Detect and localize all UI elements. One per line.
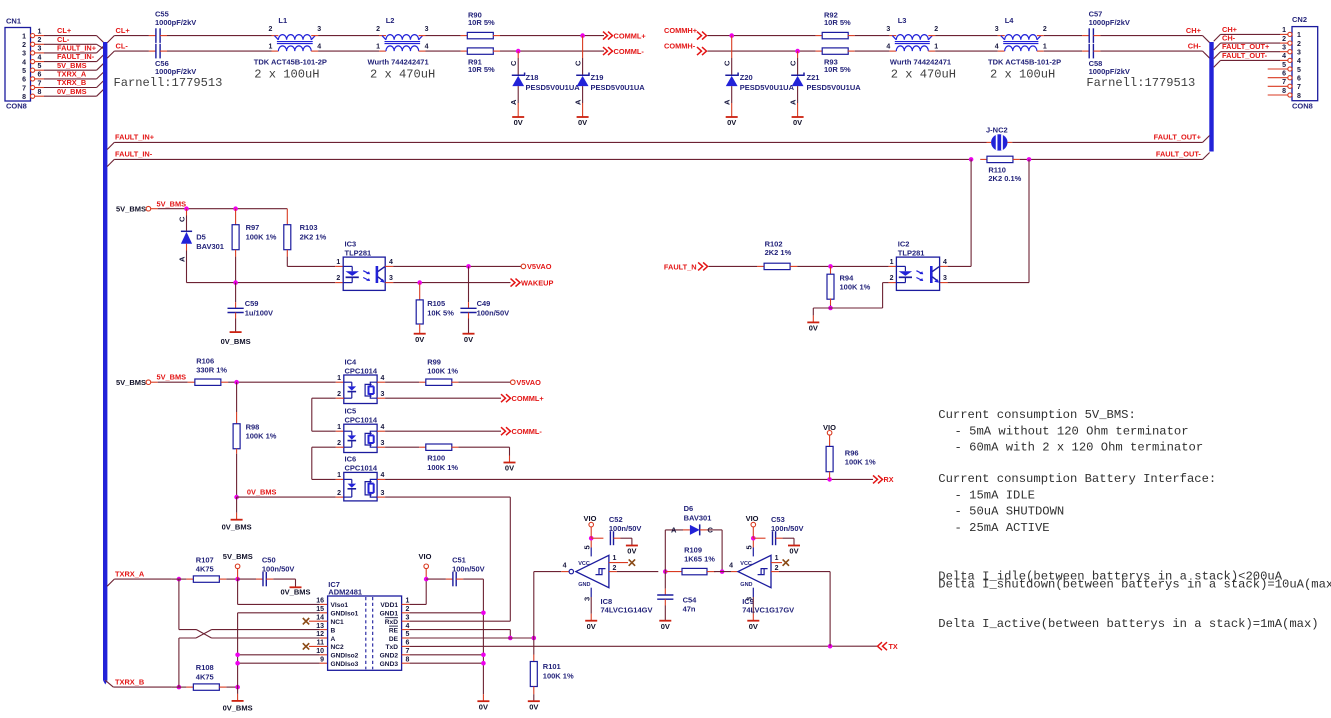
wire D6 cathode down	[700, 530, 722, 572]
wire C50 to ground	[266, 579, 295, 587]
wire CN1 pin 4 (FAULT_IN-)	[35, 55, 104, 62]
svg-text:5: 5	[1282, 62, 1286, 69]
connector CN1 box	[5, 17, 31, 111]
svg-text:100n/50V: 100n/50V	[262, 565, 295, 574]
svg-text:3: 3	[1282, 45, 1286, 52]
IC4 pin numbers	[337, 375, 384, 398]
svg-text:8: 8	[1297, 93, 1301, 100]
svg-text:- 60mA with 2 x 120 Ohm termin: - 60mA with 2 x 120 Ohm terminator	[955, 441, 1204, 455]
optocoupler IC2 internals	[896, 266, 939, 283]
node 5V_BMS pullup junction	[235, 577, 240, 582]
optocoupler IC6 (CPC1014) box	[344, 455, 378, 501]
svg-text:- 15mA IDLE: - 15mA IDLE	[955, 488, 1035, 502]
wire IC7 RxD	[402, 620, 511, 622]
svg-text:0V: 0V	[809, 324, 818, 333]
svg-text:9: 9	[320, 656, 324, 663]
svg-text:CH+: CH+	[1222, 25, 1238, 34]
wire C53 to ground	[776, 538, 794, 545]
connector CN1 pin circles	[30, 34, 34, 99]
wire C56 to L1 pin1	[160, 50, 278, 52]
wire L2 to R91	[419, 50, 468, 52]
svg-text:4: 4	[22, 59, 26, 66]
svg-text:3: 3	[583, 597, 592, 601]
svg-text:6: 6	[1297, 76, 1301, 83]
wire IC4 pin4 to R99	[377, 381, 426, 383]
net arrow COMML- (mid)	[501, 427, 542, 436]
svg-text:FAULT_OUT+: FAULT_OUT+	[1222, 42, 1270, 51]
svg-text:1: 1	[268, 44, 272, 51]
resistor R91	[467, 48, 495, 74]
svg-text:V5VAO: V5VAO	[516, 378, 541, 387]
buffer IC8 (74LVC1G14GV)	[569, 555, 652, 614]
svg-text:TDK ACT45B-101-2P: TDK ACT45B-101-2P	[254, 58, 327, 67]
optocoupler IC5 (CPC1014) box	[344, 407, 378, 453]
svg-text:TDK ACT45B-101-2P: TDK ACT45B-101-2P	[988, 58, 1061, 67]
svg-text:R105: R105	[427, 299, 445, 308]
node R94 bottom junction	[828, 306, 833, 311]
svg-text:6: 6	[1282, 71, 1286, 78]
IC6 pin numbers	[337, 472, 384, 497]
svg-text:R101: R101	[543, 662, 561, 671]
svg-text:BAV301: BAV301	[196, 242, 224, 251]
IC3 pin numbers	[336, 259, 393, 282]
svg-text:4: 4	[38, 54, 42, 61]
svg-text:12: 12	[316, 631, 324, 638]
wire L4 to C57	[1037, 35, 1089, 37]
svg-text:J-NC2: J-NC2	[986, 126, 1008, 135]
connector CN2 pin circles	[1288, 32, 1292, 97]
svg-text:100n/50V: 100n/50V	[609, 524, 642, 533]
svg-text:4: 4	[995, 44, 999, 51]
svg-text:3: 3	[406, 614, 410, 621]
IC5 pin numbers	[337, 424, 384, 447]
svg-text:1: 1	[1297, 32, 1301, 39]
svg-text:A: A	[178, 256, 187, 262]
wire 0V_BMS to IC6 pin2	[237, 496, 344, 498]
IC7 pin14 NC1 stub	[303, 618, 328, 624]
svg-text:IC6: IC6	[345, 455, 357, 464]
terminal V5VAO (R99)	[511, 378, 542, 387]
svg-text:3: 3	[1297, 50, 1301, 57]
IC9 pin3 GND wire	[745, 588, 754, 621]
IC9 pin4 number	[729, 562, 733, 569]
svg-text:1000pF/2kV: 1000pF/2kV	[155, 67, 196, 76]
capacitor C54	[657, 572, 697, 621]
svg-text:2: 2	[934, 26, 938, 33]
svg-text:C50: C50	[262, 555, 276, 564]
wire VIO node to C51	[426, 578, 453, 580]
svg-text:330R 1%: 330R 1%	[196, 366, 227, 375]
svg-text:CN2: CN2	[1292, 15, 1307, 24]
svg-text:4: 4	[886, 44, 890, 51]
svg-text:100n/50V: 100n/50V	[771, 524, 804, 533]
svg-text:GND2: GND2	[380, 653, 399, 660]
svg-text:1u/100V: 1u/100V	[245, 308, 273, 317]
wire R102 to IC2 pin1	[790, 265, 896, 267]
svg-text:0V_BMS: 0V_BMS	[221, 337, 251, 346]
svg-text:5: 5	[745, 545, 754, 549]
wire CN2 pin 6 stub	[1268, 77, 1288, 79]
terminal 5V_BMS (IC3 row)	[116, 199, 186, 213]
diode Z21 (PESD5V0U1UA)	[789, 51, 862, 127]
svg-text:74LVC1G17GV: 74LVC1G17GV	[742, 606, 794, 615]
svg-text:2: 2	[775, 565, 779, 572]
svg-text:2: 2	[337, 391, 341, 398]
svg-text:C53: C53	[771, 515, 785, 524]
svg-text:10R 5%: 10R 5%	[468, 18, 495, 27]
IC2 pin numbers	[890, 259, 947, 282]
svg-text:1: 1	[934, 44, 938, 51]
svg-text:4: 4	[943, 259, 947, 266]
svg-text:10R 5%: 10R 5%	[824, 18, 851, 27]
svg-text:2: 2	[613, 565, 617, 572]
svg-text:7: 7	[1297, 84, 1301, 91]
notes text block	[938, 408, 1331, 631]
capacitor C53	[771, 515, 804, 545]
svg-text:PESD5V0U1UA: PESD5V0U1UA	[740, 83, 795, 92]
svg-text:Delta I_active(between battery: Delta I_active(between batterys in a sta…	[938, 617, 1318, 631]
capacitor C55	[155, 10, 196, 43]
svg-text:6: 6	[406, 640, 410, 647]
node Z18 junction	[516, 49, 521, 54]
ground 0V at R105	[414, 334, 426, 344]
wire CN2 pin 1 (CH+)	[1214, 25, 1288, 42]
svg-text:0V: 0V	[749, 622, 758, 631]
svg-text:C: C	[574, 60, 583, 66]
ground 0V at C54	[659, 621, 671, 631]
svg-text:R96: R96	[845, 448, 859, 457]
svg-text:TX: TX	[889, 642, 898, 651]
terminal VIO (IC8)	[584, 514, 597, 538]
svg-text:4: 4	[563, 562, 567, 569]
svg-text:10R 5%: 10R 5%	[824, 65, 851, 74]
node GNDIso2 junction	[235, 653, 240, 658]
svg-text:3: 3	[943, 275, 947, 282]
svg-text:7: 7	[38, 80, 42, 87]
svg-text:COMML-: COMML-	[614, 47, 645, 56]
net arrow COMML+ (mid)	[501, 394, 544, 403]
wire R110 left to IC2 pin4	[940, 159, 972, 266]
wire FAULT_IN+ to J-NC2	[114, 141, 991, 143]
ground 0V_BMS at C59	[221, 332, 251, 346]
node VIO junction	[424, 577, 429, 582]
svg-text:5: 5	[583, 545, 592, 549]
optocoupler IC6 internals	[344, 479, 377, 497]
svg-text:13: 13	[316, 623, 324, 630]
wire VCC node to C53	[753, 537, 765, 539]
svg-text:5V_BMS: 5V_BMS	[223, 552, 253, 561]
svg-text:2: 2	[22, 42, 26, 49]
IC8 pin4 number	[563, 562, 567, 569]
svg-text:DE: DE	[389, 636, 399, 643]
svg-text:C52: C52	[609, 515, 623, 524]
svg-text:4: 4	[381, 472, 385, 479]
svg-text:0V: 0V	[793, 118, 802, 127]
IC7 left pin labels	[316, 598, 358, 668]
svg-text:FAULT_IN+: FAULT_IN+	[115, 133, 155, 142]
jumper J-NC2	[986, 126, 1008, 151]
svg-text:BAV301: BAV301	[684, 514, 712, 523]
optocoupler IC5 internals	[344, 431, 377, 447]
wire DE node to IC8 output	[534, 572, 569, 638]
svg-text:FAULT_OUT-: FAULT_OUT-	[1222, 51, 1268, 60]
resistor R94	[827, 266, 871, 305]
wire IC5 pin2 to IC6 pin1	[312, 447, 344, 479]
wire CN2 pin 4 (FAULT_OUT-)	[1214, 51, 1288, 68]
resistor R110	[987, 156, 1022, 183]
wire 5V_BMS to R106	[151, 381, 195, 383]
svg-text:PESD5V0U1UA: PESD5V0U1UA	[526, 83, 581, 92]
wire L2 to R90	[419, 35, 468, 37]
svg-text:Current consumption 5V_BMS:: Current consumption 5V_BMS:	[938, 408, 1135, 422]
connector CN2 box	[1292, 15, 1318, 111]
svg-text:5: 5	[38, 63, 42, 70]
svg-text:1: 1	[337, 375, 341, 382]
svg-text:1: 1	[406, 598, 410, 605]
node Z20 junction	[729, 33, 734, 38]
wire R90 to COMML+	[493, 35, 604, 37]
resistor R105	[416, 283, 454, 334]
svg-text:2K2 1%: 2K2 1%	[300, 233, 327, 242]
wire node to C50	[238, 578, 263, 580]
svg-text:2: 2	[38, 37, 42, 44]
svg-text:C49: C49	[477, 299, 491, 308]
svg-text:TXRX_B: TXRX_B	[115, 677, 144, 686]
svg-text:100K 1%: 100K 1%	[427, 366, 458, 375]
optocoupler IC3 (TLP281) box	[343, 239, 385, 290]
svg-text:5V_BMS: 5V_BMS	[116, 205, 146, 214]
connector CN1 outer pin numbers	[38, 28, 42, 96]
svg-text:TXRX_A: TXRX_A	[115, 569, 145, 578]
wire TXRX_B to R108	[172, 686, 194, 688]
svg-text:1000pF/2kV: 1000pF/2kV	[1089, 67, 1130, 76]
svg-text:CL+: CL+	[57, 26, 72, 35]
svg-text:7: 7	[1282, 79, 1286, 86]
IC8 pin3 GND wire	[583, 588, 592, 621]
svg-text:Z21: Z21	[807, 73, 820, 82]
svg-text:2: 2	[1297, 41, 1301, 48]
svg-text:Wurth 744242471: Wurth 744242471	[890, 58, 951, 67]
svg-text:R100: R100	[427, 453, 445, 462]
svg-text:L3: L3	[898, 16, 907, 25]
svg-text:4: 4	[425, 44, 429, 51]
svg-text:6: 6	[22, 77, 26, 84]
svg-text:CON8: CON8	[6, 102, 27, 111]
resistor R99	[426, 357, 459, 385]
node R105 junction	[417, 280, 422, 285]
wire CL- from bus	[107, 42, 128, 58]
svg-text:5: 5	[22, 68, 26, 75]
svg-text:4: 4	[406, 623, 410, 630]
svg-text:0V_BMS: 0V_BMS	[280, 588, 310, 597]
wire COMMH- to R93	[708, 50, 823, 52]
svg-text:2K2 0.1%: 2K2 0.1%	[988, 174, 1021, 183]
CN1 net labels	[57, 26, 97, 96]
bus left vertical	[103, 42, 107, 685]
ground 0V at C49	[463, 334, 475, 344]
wire FAULT_IN- from bus	[107, 150, 153, 167]
svg-text:VIso1: VIso1	[331, 602, 349, 609]
wire R92 to L3	[848, 35, 897, 37]
svg-text:RX: RX	[884, 475, 894, 484]
wire CN2 pin 8 stub	[1268, 94, 1288, 96]
IC7 right pin labels	[380, 598, 410, 668]
svg-text:GNDIso2: GNDIso2	[331, 653, 359, 660]
wire R110 right to IC2 pin3	[940, 159, 1029, 282]
svg-text:3: 3	[381, 440, 385, 447]
svg-text:Z18: Z18	[526, 73, 539, 82]
node R110 right junction	[1027, 157, 1032, 162]
node GNDIso3 junction	[235, 661, 240, 666]
svg-text:C59: C59	[245, 299, 259, 308]
svg-text:4K75: 4K75	[196, 565, 214, 574]
net arrow WAKEUP	[511, 278, 554, 287]
svg-text:1: 1	[337, 472, 341, 479]
wire FAULT_N to R102	[709, 265, 764, 267]
wire IC4 pin3 to COMML+	[377, 397, 501, 399]
svg-text:FAULT_N: FAULT_N	[664, 263, 697, 272]
wire TXRX_B to IC7 pin13 B	[179, 630, 328, 688]
resistor R103	[284, 209, 343, 267]
IC8 pin1 NC	[609, 555, 635, 566]
svg-text:3: 3	[22, 51, 26, 58]
svg-text:NC1: NC1	[331, 619, 345, 626]
svg-text:R106: R106	[196, 357, 214, 366]
svg-text:CPC1014: CPC1014	[345, 366, 378, 375]
svg-text:C51: C51	[452, 555, 466, 564]
svg-text:2: 2	[336, 275, 340, 282]
capacitor C56	[155, 44, 196, 76]
svg-text:NC2: NC2	[331, 644, 345, 651]
node TX junction	[828, 644, 833, 649]
svg-text:R98: R98	[246, 422, 260, 431]
svg-text:0V: 0V	[587, 622, 596, 631]
wire IC3 pin4 to V5VAO	[385, 265, 521, 267]
wire IC3 pin3 to WAKEUP	[385, 282, 510, 284]
svg-text:B: B	[331, 627, 336, 634]
ground 0V at IC8	[585, 621, 597, 631]
optocoupler IC4 (CPC1014) box	[344, 357, 378, 403]
wire C58 to bus CH-	[1093, 42, 1209, 59]
svg-text:1: 1	[376, 44, 380, 51]
svg-text:2 x 100uH: 2 x 100uH	[254, 67, 319, 81]
ic IC7 (ADM2481) box	[328, 580, 402, 670]
resistor R98	[233, 382, 277, 497]
svg-text:5V_BMS: 5V_BMS	[157, 199, 187, 208]
svg-text:2 x 470uH: 2 x 470uH	[370, 67, 435, 81]
svg-text:1: 1	[1043, 44, 1047, 51]
svg-text:C: C	[789, 60, 798, 66]
diode Z20 (PESD5V0U1UA)	[723, 36, 795, 128]
net arrow COMML- (top)	[603, 47, 644, 56]
svg-text:74LVC1G14GV: 74LVC1G14GV	[601, 606, 653, 615]
wire VCC node to C52	[591, 537, 603, 539]
wire CN1 pin 6 (TXRX_A)	[35, 72, 104, 79]
svg-text:2 x 470uH: 2 x 470uH	[891, 67, 956, 81]
diode Z19 (PESD5V0U1UA)	[574, 36, 646, 128]
svg-text:CPC1014: CPC1014	[345, 416, 378, 425]
svg-text:3: 3	[995, 26, 999, 33]
svg-text:4: 4	[1297, 58, 1301, 65]
connector CN2 inner pin numbers	[1297, 32, 1301, 100]
node R109-C54 junction	[663, 569, 668, 574]
svg-text:IC4: IC4	[345, 357, 358, 366]
net arrow COMMH+ (top)	[664, 26, 707, 39]
resistor R107	[193, 555, 219, 582]
svg-text:C: C	[509, 60, 518, 66]
IC8 pin5 VCC wire	[583, 538, 592, 556]
svg-text:2: 2	[268, 26, 272, 33]
connector CN2 outer pin numbers	[1282, 27, 1286, 95]
svg-text:VCC: VCC	[740, 561, 752, 567]
svg-text:R94: R94	[840, 273, 855, 282]
terminal 5V_BMS (R107)	[223, 552, 253, 579]
capacitor C52	[609, 515, 642, 545]
wire R91 to COMML-	[493, 50, 604, 52]
svg-text:5V_BMS: 5V_BMS	[116, 378, 146, 387]
svg-text:100K 1%: 100K 1%	[427, 463, 458, 472]
optocoupler IC4 internals	[344, 382, 377, 398]
resistor R101	[530, 662, 574, 687]
connector CN1 inner pin numbers	[22, 33, 26, 101]
svg-text:1: 1	[775, 555, 779, 562]
wire IC7 GND3	[402, 662, 484, 664]
svg-text:100K 1%: 100K 1%	[845, 458, 876, 467]
svg-text:CN1: CN1	[6, 17, 21, 26]
svg-text:2: 2	[1043, 26, 1047, 33]
wire TXRX_B from bus	[105, 677, 172, 687]
wire IC5 pin4 to COMML-	[377, 430, 501, 432]
IC9 pin5 VCC wire	[745, 538, 754, 556]
svg-text:COMMH+: COMMH+	[664, 26, 698, 35]
svg-text:GND: GND	[740, 582, 752, 588]
wire C57 to bus CH+	[1093, 26, 1209, 43]
net arrow FAULT_N	[664, 262, 708, 271]
wire CN2 pin 2 (CH-)	[1214, 34, 1288, 51]
ground 0V at C52	[626, 546, 638, 556]
resistor R93	[822, 48, 851, 74]
wire TXRX_A to R107	[172, 578, 194, 580]
svg-text:7: 7	[22, 85, 26, 92]
capacitor C51	[452, 555, 485, 586]
node R97 bottom junction	[233, 280, 238, 285]
wire CN1 pin 3 (FAULT_IN+)	[35, 46, 104, 53]
node GND3 junction	[481, 661, 486, 666]
wire R101 to ground	[533, 687, 535, 702]
svg-text:GNDIso3: GNDIso3	[331, 661, 359, 668]
node DE junction	[532, 636, 537, 641]
ground 0V at IC9	[747, 621, 759, 631]
svg-text:Z19: Z19	[591, 73, 604, 82]
node R110 left junction	[969, 157, 974, 162]
terminal VIO (IC9)	[746, 514, 759, 538]
svg-text:4: 4	[1282, 53, 1286, 60]
wire GND node to ground	[237, 687, 239, 701]
wire R106 to IC4 pin1	[221, 381, 344, 383]
svg-text:0V_BMS: 0V_BMS	[57, 87, 87, 96]
svg-text:0V: 0V	[789, 547, 798, 556]
svg-text:5V_BMS: 5V_BMS	[57, 61, 87, 70]
wire ground node left	[813, 308, 830, 322]
svg-text:L4: L4	[1005, 16, 1015, 25]
wire CN1 pin 7 (TXRX_B)	[35, 81, 104, 88]
svg-text:0V_BMS: 0V_BMS	[247, 487, 277, 496]
svg-text:3: 3	[317, 26, 321, 33]
resistor R97	[232, 209, 277, 283]
node R108 GND junction	[235, 685, 240, 690]
svg-text:4: 4	[381, 375, 385, 382]
resistor R102	[764, 239, 792, 269]
